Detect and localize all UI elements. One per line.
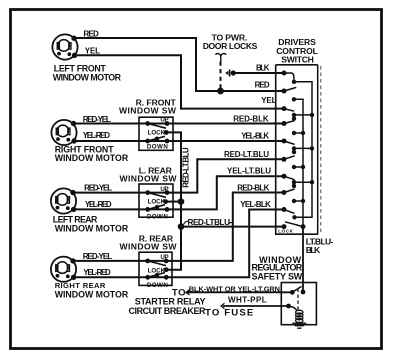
node contact c2 bus2 top — [292, 97, 296, 101]
wire YEL-RED / YEL-BLK (RR motor through R.rear sw to drivers switch) — [74, 210, 284, 278]
svg-text:WINDOW SW: WINDOW SW — [120, 242, 178, 252]
drivers control switch box — [276, 65, 321, 234]
svg-text:YEL-LT.BLU: YEL-LT.BLU — [227, 167, 271, 176]
node contact c9 bus1 bottom — [292, 215, 296, 219]
contact pair row RED-BLK — [294, 132, 303, 134]
node YEL-LT.BLU entry — [282, 174, 287, 179]
wire BLK-WHT OR YEL-LT.GRN (to starter relay circuit breaker) — [187, 291, 293, 293]
svg-text:YEL: YEL — [85, 47, 100, 56]
switch arm YEL — [284, 109, 294, 112]
left front window motor M1 — [52, 34, 77, 59]
wire L.rear lock tap — [166, 201, 181, 203]
svg-text:DOWN: DOWN — [147, 213, 168, 220]
bus 1 (BLK bus inside drivers switch) — [294, 82, 312, 218]
svg-text:UP: UP — [160, 254, 168, 261]
node contact pair YEL-BLK row — [292, 146, 296, 150]
L. rear window switch U3 — [139, 184, 173, 217]
svg-text:RED-YEL: RED-YEL — [83, 252, 113, 261]
node WHT-PPL to coil — [286, 304, 291, 309]
wire to pwr. door locks (dashed drop) — [220, 62, 222, 92]
node contact pair YEL-LT.BLU row — [292, 180, 296, 184]
wire RED-LTBLU lock feed to drivers switch — [181, 226, 284, 228]
wire RED-YEL / RED-BLK (RF motor through R.front sw to drivers switch) — [74, 123, 285, 125]
svg-text:LOCK: LOCK — [148, 267, 166, 274]
svg-text:SAFETY SW: SAFETY SW — [252, 272, 303, 282]
node safety sw contacts — [290, 290, 295, 295]
switch arm BLK — [284, 73, 294, 82]
svg-text:BLK-WHT OR YEL-LT.GRN: BLK-WHT OR YEL-LT.GRN — [189, 284, 280, 293]
node YEL-BLK entry — [282, 139, 287, 144]
wire RED-YEL / RED-LT.BLU (LR motor through L.rear sw to drivers switch) — [73, 159, 284, 192]
svg-text:RED-BLK: RED-BLK — [233, 114, 269, 123]
switch arm RED-BLK — [284, 121, 295, 124]
window regulator safety switch box — [281, 283, 316, 325]
R. front window switch U2 — [139, 117, 173, 150]
switch arm YEL-BLK — [284, 141, 295, 144]
svg-text:LOCK: LOCK — [148, 199, 166, 206]
node LOCK entry — [282, 224, 287, 229]
svg-text:RED: RED — [83, 29, 99, 38]
svg-text:UP: UP — [160, 186, 168, 193]
node RED-BLK 2 entry — [282, 190, 287, 195]
node contact pair RED-BLK row — [292, 131, 296, 135]
ground — [292, 322, 306, 329]
leader TO pointer — [186, 291, 191, 294]
wire RED (LF motor to drivers switch) — [74, 38, 284, 91]
arrow to pwr. door locks — [215, 53, 226, 61]
svg-text:LOCK: LOCK — [278, 228, 293, 233]
node RED-LT.BLU entry — [282, 157, 287, 162]
connector BLK wire — [225, 71, 228, 75]
svg-text:RIGHT REAR: RIGHT REAR — [55, 281, 106, 290]
svg-text:YEL-RED: YEL-RED — [85, 200, 112, 209]
wire BLK (connector to drivers switch) — [235, 72, 285, 74]
svg-text:UP: UP — [160, 117, 168, 124]
svg-text:RED-YEL: RED-YEL — [84, 184, 112, 193]
wire RED-YEL / RED-BLK (RR motor through R.rear sw to drivers switch) — [73, 193, 284, 261]
node lock bus / L.rear lock — [178, 198, 185, 205]
svg-text:WINDOW SW: WINDOW SW — [119, 106, 177, 116]
svg-text:WINDOW SW: WINDOW SW — [120, 174, 178, 184]
node lock bus / RED-LTBLU feed — [178, 223, 185, 230]
svg-text:SWITCH: SWITCH — [281, 54, 314, 64]
wire YEL-RED / YEL-LT.BLU (LR motor through L.rear sw to drivers switch) — [74, 176, 284, 209]
switch arm RED — [284, 87, 296, 91]
switch arm RED-BLK 2 — [284, 189, 295, 193]
svg-text:TO FUSE: TO FUSE — [205, 307, 254, 318]
arrow WHT-PPL wire end — [221, 303, 225, 309]
left rear window motor M3 — [51, 188, 76, 213]
bus 2 (lock bus inside drivers switch to LT.BLU-BLK) — [294, 99, 303, 226]
wire LT.BLU-BLK (drivers switch to safety switch) — [302, 227, 304, 292]
svg-text:WINDOW MOTOR: WINDOW MOTOR — [53, 73, 122, 83]
mechanical link dashed — [297, 289, 299, 310]
right rear window motor M4 — [51, 257, 76, 282]
svg-text:RED-LT.BLU: RED-LT.BLU — [224, 150, 269, 159]
contact pair row RED-BLK 2 — [294, 200, 303, 202]
node YEL-BLK 2 entry — [282, 207, 287, 212]
node bus2 bottom LOCK pivot — [301, 224, 306, 229]
svg-text:BLK: BLK — [306, 245, 321, 255]
node RED-BLK entry — [282, 121, 287, 126]
svg-text:BLK: BLK — [256, 64, 270, 73]
node contact pair RED-LT.BLU row — [292, 165, 296, 169]
node bus1 taps — [310, 113, 314, 117]
svg-text:DOOR LOCKS: DOOR LOCKS — [203, 41, 258, 51]
right front window motor M2 — [51, 120, 76, 145]
arrow BLK-WHT wire end — [186, 290, 189, 295]
wire WHT-PPL (to fuse) — [223, 305, 289, 307]
node contact pair YEL row — [292, 113, 296, 117]
contact pair row YEL-LT.BLU — [294, 182, 312, 186]
contact pair row YEL — [294, 115, 312, 119]
R. rear window switch U4 — [139, 252, 172, 285]
contact pair row RED-LT.BLU — [294, 166, 303, 168]
contact pair row YEL-BLK — [294, 148, 312, 152]
svg-text:WINDOW MOTOR: WINDOW MOTOR — [55, 153, 129, 163]
coil safety switch solenoid — [296, 310, 303, 322]
node RED entry — [282, 89, 287, 94]
svg-text:YEL-BLK: YEL-BLK — [241, 131, 269, 140]
wire YEL (LF motor to drivers switch) — [75, 55, 284, 108]
svg-text:YEL-BLK: YEL-BLK — [240, 200, 271, 209]
svg-text:YEL-RED: YEL-RED — [83, 268, 111, 277]
wire YEL-RED / YEL-BLK (RF motor through R.front sw to drivers switch) — [74, 140, 284, 142]
svg-text:RED: RED — [255, 81, 270, 90]
svg-text:WINDOW MOTOR: WINDOW MOTOR — [55, 224, 129, 234]
svg-text:DOWN: DOWN — [147, 282, 168, 289]
switch arm YEL-BLK 2 — [284, 210, 295, 214]
svg-text:CIRCUIT BREAKER: CIRCUIT BREAKER — [129, 306, 207, 316]
svg-text:LOCK: LOCK — [148, 130, 166, 137]
svg-text:RED-LTBLU: RED-LTBLU — [188, 218, 231, 227]
switch arm YEL-LT.BLU — [284, 176, 295, 180]
wire lock bus (R.front lock to R.rear lock) — [166, 132, 181, 269]
svg-text:RED-BLK: RED-BLK — [237, 183, 269, 192]
svg-text:RED-YEL: RED-YEL — [83, 115, 111, 124]
switch arm RED-LT.BLU — [284, 156, 295, 160]
node junction RED / door locks — [217, 88, 224, 95]
node contact c1 BLK-bus1 — [292, 80, 296, 84]
svg-text:WHT-PPL: WHT-PPL — [228, 296, 267, 305]
svg-text:WINDOW MOTOR: WINDOW MOTOR — [55, 290, 129, 300]
svg-text:DOWN: DOWN — [147, 144, 168, 151]
svg-text:RED-LT.BLU: RED-LT.BLU — [182, 147, 191, 188]
node YEL entry — [282, 106, 287, 111]
leader RED-LTBLU label pointer — [184, 221, 189, 224]
switch arm LOCK — [285, 222, 303, 227]
svg-text:YEL: YEL — [261, 96, 276, 105]
node BLK entry — [282, 71, 287, 76]
node contact pair RED-BLK 2 row — [292, 199, 296, 203]
switch arm safety sw — [292, 286, 301, 292]
svg-text:YEL-RED: YEL-RED — [83, 131, 111, 140]
